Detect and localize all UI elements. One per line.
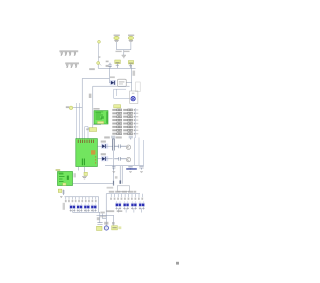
varistor Z4 — [91, 204, 97, 212]
capacitor C1 label text — [114, 35, 120, 37]
IC U3 USB interface — [94, 111, 108, 124]
wire rpack feed1 — [114, 89, 126, 96]
wire branch top — [82, 78, 109, 80]
net text right column — [133, 71, 136, 76]
power symbols cluster — [100, 212, 106, 219]
varistor Z2 — [76, 204, 82, 212]
resistor row 6 — [112, 126, 138, 128]
wire 5V rail — [98, 65, 135, 69]
wire pair to serial — [120, 166, 122, 184]
diode D5 label — [101, 153, 106, 155]
connector J2 text band — [65, 62, 79, 64]
diode D3 label — [128, 61, 133, 65]
label below U1 — [84, 172, 87, 175]
net text under rail — [116, 51, 130, 52]
right group rail — [106, 194, 140, 219]
label above U1 — [86, 128, 96, 132]
net text PWR — [89, 68, 95, 70]
diode D4 — [98, 144, 113, 149]
varistor Z1 — [69, 204, 75, 212]
connector J1 pin 2 — [65, 52, 67, 56]
ground below U1 — [82, 176, 87, 179]
pushbutton S1 — [104, 225, 109, 230]
plus5 symbol left — [104, 136, 110, 138]
capacitor C5 top — [111, 136, 115, 139]
resistor row 8 — [112, 133, 138, 135]
diode D4 label — [101, 141, 106, 143]
capacitor C12 bottom — [139, 167, 143, 170]
page number — [176, 262, 179, 265]
connector J1 pin 1 — [61, 52, 63, 56]
IC U1 microcontroller — [76, 139, 98, 167]
junction tick serial — [113, 181, 114, 186]
wire U1 bottom stub2 — [83, 167, 85, 172]
wire regulator output — [126, 82, 131, 84]
wire double rail — [113, 139, 115, 151]
wire +5V vertical — [98, 43, 100, 61]
wire vreg vertical — [131, 65, 133, 91]
diode D1 label — [110, 76, 115, 78]
plus5 symbol right — [116, 136, 122, 138]
capacitor C8 — [114, 144, 126, 148]
right group net text — [109, 191, 136, 193]
varistor Z7 — [131, 202, 137, 210]
connector J1 pin 3 — [69, 52, 71, 56]
wire U3 bottom left — [93, 124, 101, 126]
wire drop button — [105, 215, 107, 225]
wire vertical x88 — [85, 127, 88, 139]
varistor Z6 — [123, 202, 129, 210]
connector J2 pin 2 — [71, 64, 73, 68]
wire C2 down — [130, 42, 132, 50]
wire drop xtal — [113, 215, 115, 225]
resistor row 4 — [112, 119, 138, 121]
capacitor C6 top — [129, 136, 133, 139]
capacitor C1 — [114, 36, 119, 41]
connector J1 pin 4 — [74, 52, 76, 56]
resistor R bottom symbol — [97, 223, 102, 225]
left group pin stubs — [66, 197, 96, 200]
diode D2 label — [115, 60, 121, 64]
wire right rail 1 — [134, 138, 136, 166]
lamp LED box — [130, 91, 138, 103]
node yellow circle — [69, 106, 73, 110]
wire rail A — [73, 212, 100, 222]
connector J2 pin 1 — [66, 64, 68, 68]
node +5V top — [98, 40, 101, 43]
varistor Z3 — [84, 204, 90, 212]
crystal Y1 label — [112, 226, 118, 230]
wire to LED — [114, 89, 130, 98]
node +5V bottom — [97, 62, 100, 65]
text above serial — [115, 176, 118, 178]
capacitor C3 plus text — [106, 61, 109, 63]
ground under C12 — [140, 171, 143, 172]
bottom rail text 2 — [117, 210, 123, 212]
wire vertical x84 — [84, 127, 86, 139]
diode D3 symbol — [129, 64, 132, 68]
text mid bottom left — [104, 222, 108, 225]
resistor row 1 — [112, 109, 138, 111]
bottom rail — [97, 214, 114, 216]
diode symbol below U5 — [62, 190, 65, 195]
LED circled — [130, 93, 135, 102]
resistor row 2 — [112, 112, 138, 114]
IC U5 — [58, 172, 73, 186]
label R-pack — [114, 105, 121, 108]
transistor T1 — [126, 145, 130, 149]
crystal stub right — [118, 226, 121, 229]
varistor Z5 — [115, 202, 121, 210]
bottom rail text 1 — [106, 210, 114, 212]
label below U5 — [58, 189, 62, 192]
wire right rail 3 — [143, 140, 145, 165]
ground GND1 — [122, 55, 126, 58]
wire long vertical x82 — [81, 79, 83, 139]
right group pin stubs — [111, 194, 142, 197]
text between rails — [97, 217, 100, 220]
wire rail down to serial — [113, 151, 115, 184]
text above U3 — [93, 108, 99, 110]
capacitor C2 label text — [128, 35, 134, 37]
capacitor C3 side text — [106, 65, 109, 67]
text mid bottom right — [112, 222, 115, 225]
transistor T2 — [126, 157, 130, 161]
wire C1 down — [116, 42, 118, 50]
text ICSP — [89, 94, 92, 98]
diode D2 symbol — [116, 64, 119, 69]
junction tick serial 2 — [120, 180, 122, 183]
wire cap rail — [117, 50, 131, 55]
connector box below serial — [117, 186, 129, 192]
connector J1 text band — [59, 50, 78, 52]
left group pin symbols — [65, 200, 97, 202]
diode D5 — [98, 156, 113, 161]
resistor row 5 — [112, 123, 138, 125]
right group pin symbols — [110, 198, 143, 200]
wire U1 bottom stub1 — [77, 167, 79, 171]
wire right rail 2 — [138, 138, 140, 166]
right pairs bottom stems — [118, 208, 141, 212]
vertical net text left of bus — [63, 203, 65, 210]
connector X1 outline — [136, 82, 141, 92]
wire vertical x79 — [79, 103, 81, 139]
resistor row 3 — [112, 116, 138, 118]
left pairs bottom stems — [73, 209, 94, 212]
net label D- text — [66, 106, 69, 108]
resistor row 7 — [112, 129, 138, 131]
connector J2 pin 3 — [75, 64, 77, 68]
capacitor C10 bottom — [112, 167, 115, 170]
net label arrow — [99, 56, 101, 58]
capacitor C3 polarized — [108, 63, 111, 69]
wire regulator input — [109, 68, 110, 82]
wire bottom rail u1 — [105, 164, 144, 166]
text under serial junction — [107, 187, 114, 189]
wire left bus rail — [65, 197, 99, 213]
wire gnd rail mid — [88, 86, 130, 128]
text above U5 — [56, 169, 61, 171]
capacitor C11 bottom — [128, 167, 132, 170]
wire rpack right rail — [134, 108, 136, 138]
pin text right of U5 — [74, 173, 76, 177]
wire serial link — [73, 183, 114, 185]
varistor Z8 — [139, 202, 145, 210]
diode D1 — [110, 80, 116, 85]
ground under C11 — [129, 171, 132, 172]
wire vertical x76 — [76, 103, 78, 139]
ground below U5 — [60, 196, 62, 197]
wire node to bus — [73, 107, 82, 109]
regulator U2 box — [118, 79, 127, 86]
label bottom yellow1 — [97, 226, 103, 230]
capacitor C9 — [114, 157, 126, 161]
ground under C10 — [112, 171, 115, 172]
net text blue bottom — [126, 168, 137, 170]
capacitor C2 — [128, 36, 133, 41]
